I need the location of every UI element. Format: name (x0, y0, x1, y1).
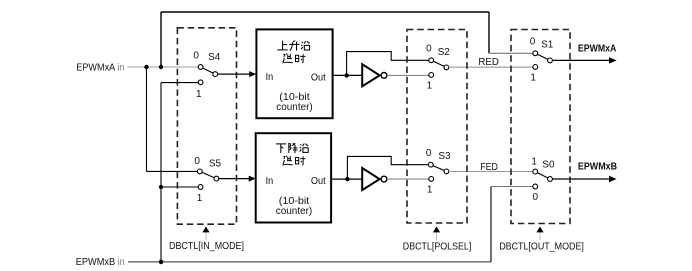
svg-text:S1: S1 (541, 39, 554, 50)
wire: lower bypass to S3 contact 0 (347, 156, 428, 179)
svg-text:Out: Out (311, 176, 326, 187)
svg-text:0: 0 (193, 50, 199, 61)
svg-text:EPWMxA in: EPWMxA in (76, 62, 124, 73)
wire: S5 output arrow into In (219, 176, 256, 182)
svg-text:0: 0 (426, 148, 432, 159)
svg-text:0: 0 (194, 156, 200, 167)
wire: top feedback line (EPWMxA bypass to S1 position 0) (161, 12, 489, 67)
svg-text:RED: RED (478, 57, 499, 68)
node: junction dot lower Out (345, 177, 349, 181)
svg-text:S2: S2 (438, 47, 451, 58)
svg-text:1: 1 (197, 193, 203, 204)
switch S1 (530, 37, 554, 84)
svg-text:In: In (266, 176, 274, 187)
text 延时 (282, 156, 292, 165)
svg-text:S3: S3 (438, 151, 451, 162)
text 下降沿 (276, 144, 286, 153)
pointer: OUT_MODE up arrow (536, 227, 543, 241)
svg-text:DBCTL[OUT_MODE]: DBCTL[OUT_MODE] (499, 241, 584, 253)
block: falling edge delay box (256, 133, 331, 222)
wire: lower inverter out to S3 contact 1 (387, 178, 429, 180)
wire: lower Out to inverter (331, 178, 362, 180)
dashed box DBCTL[IN_MODE] (177, 28, 236, 224)
svg-text:0: 0 (533, 192, 539, 203)
svg-text:DBCTL[POLSEL]: DBCTL[POLSEL] (403, 241, 472, 253)
wire: FED net S3 pivot to S0 contact 1 (449, 171, 533, 173)
switch S3 (426, 148, 451, 195)
svg-text:EPWMxB in: EPWMxB in (76, 257, 125, 268)
svg-text:1: 1 (196, 89, 202, 100)
block: rising edge delay box (256, 29, 332, 118)
svg-text:1: 1 (427, 185, 433, 196)
wire: EPWMxB branch up to S4 contact 1 (161, 83, 198, 262)
svg-text:counter): counter) (276, 206, 313, 217)
wire: EPWMxA branch down to S5 contact 0 (147, 67, 198, 171)
node: junction dot upper Out (344, 73, 348, 77)
wire: EPWMxB in horizontal (128, 261, 491, 263)
svg-text:counter): counter) (276, 102, 313, 113)
svg-text:1: 1 (530, 73, 536, 84)
text 上升沿 (277, 41, 287, 50)
wire: upper Out to inverter (333, 74, 363, 76)
pointer: POLSEL up arrow (433, 227, 440, 241)
svg-text:Out: Out (311, 72, 326, 83)
svg-text:EPWMxA: EPWMxA (578, 44, 617, 55)
wire: EPWMxB output arrow (552, 161, 617, 182)
svg-text:S0: S0 (542, 160, 555, 171)
node: junction dot on EPWMxA in (branch to top line) (159, 65, 163, 69)
svg-text:S4: S4 (208, 52, 221, 63)
svg-text:FED: FED (480, 162, 498, 173)
inverter U1 (upper) (362, 64, 387, 86)
svg-text:(10-bit: (10-bit (279, 196, 310, 207)
wire: upper inverter out to S2 contact 1 (387, 74, 429, 76)
wire: EPWMxB bypass up to S0 contact 0 (490, 187, 492, 262)
text 延时 (282, 54, 292, 63)
wire: upper bypass to S2 contact 0 (347, 52, 429, 76)
svg-text:In: In (266, 72, 274, 83)
svg-text:EPWMxB: EPWMxB (578, 161, 617, 172)
wire: segment into S1 contact 0 (489, 52, 533, 54)
svg-text:S5: S5 (209, 158, 222, 169)
switch S2 (426, 44, 450, 92)
node: junction dot on EPWMxB in (159, 260, 164, 265)
wire: EPWMxA in horizontal (128, 66, 199, 68)
wire: RED net S2 pivot to S1 contact 1 (449, 66, 533, 68)
pointer: IN_MODE up arrow (202, 227, 209, 241)
dashed box DBCTL[OUT_MODE] (511, 30, 570, 224)
switch S0 (531, 156, 555, 203)
svg-text:1: 1 (531, 156, 537, 167)
svg-text:DBCTL[IN_MODE]: DBCTL[IN_MODE] (169, 240, 244, 252)
switch S5 (194, 156, 221, 204)
svg-text:0: 0 (530, 37, 536, 48)
node: junction dot to S5 contact 1 (159, 185, 163, 189)
switch S4 (193, 50, 220, 100)
dashed box DBCTL[POLSEL] (407, 30, 467, 224)
inverter U2 (lower) (362, 168, 387, 190)
svg-text:1: 1 (427, 81, 433, 92)
node: junction dot on EPWMxA in (branch to S5) (144, 65, 148, 69)
wire: EPWMxA output arrow (552, 44, 616, 64)
svg-text:0: 0 (426, 44, 432, 55)
wire: S4 output arrow into In (218, 71, 256, 77)
